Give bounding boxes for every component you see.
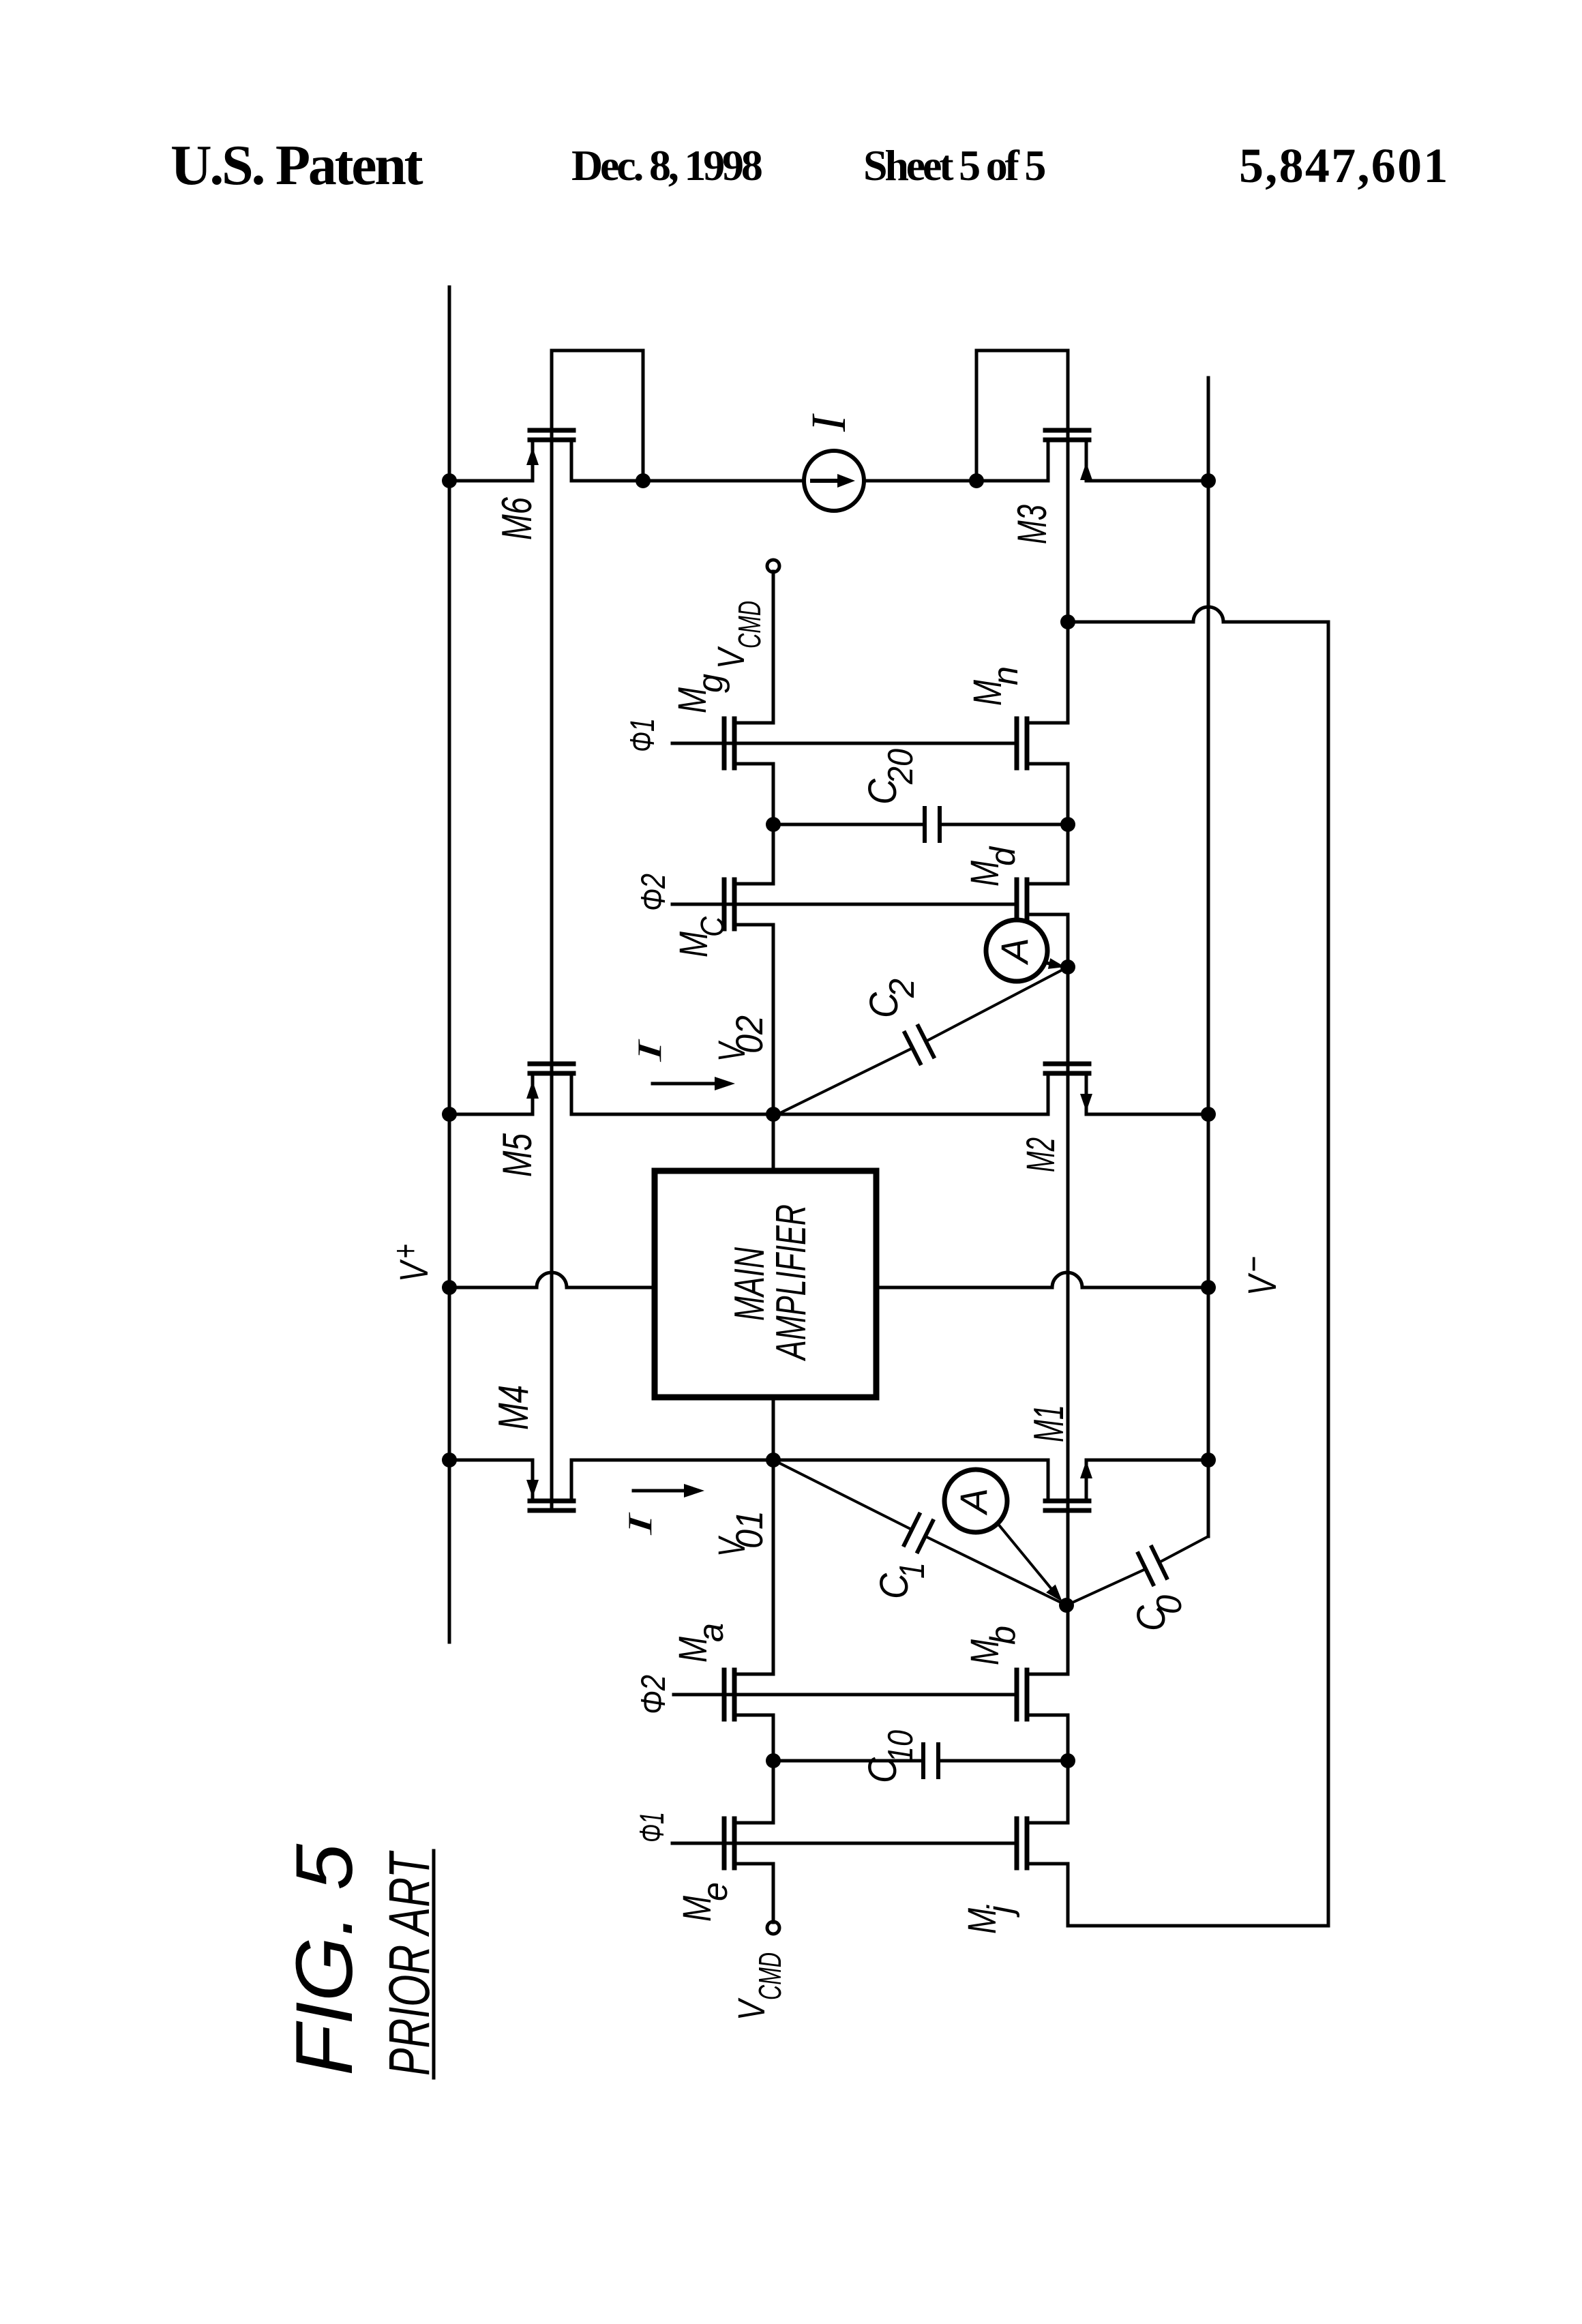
- svg-text:V: V: [1240, 1272, 1285, 1296]
- svg-text:CMD: CMD: [752, 1952, 788, 2000]
- svg-text:FIG. 5: FIG. 5: [280, 1844, 370, 2076]
- svg-text:d: d: [983, 846, 1023, 866]
- svg-text:a: a: [691, 1623, 731, 1642]
- svg-text:C: C: [695, 917, 731, 937]
- svg-text:+: +: [386, 1244, 426, 1259]
- svg-text:Φ2: Φ2: [634, 1675, 672, 1714]
- svg-text:01: 01: [728, 1510, 771, 1549]
- svg-text:M4: M4: [490, 1385, 537, 1430]
- svg-text:I: I: [801, 413, 856, 432]
- svg-text:1: 1: [893, 1562, 932, 1579]
- svg-text:02: 02: [728, 1015, 771, 1054]
- svg-text:0: 0: [1150, 1595, 1189, 1614]
- svg-text:M2: M2: [1019, 1137, 1063, 1172]
- svg-text:V: V: [730, 1997, 773, 2021]
- svg-text:A: A: [952, 1488, 995, 1515]
- svg-text:M3: M3: [1009, 505, 1055, 544]
- svg-text:b: b: [983, 1626, 1023, 1645]
- svg-text:2: 2: [882, 979, 922, 998]
- svg-text:I: I: [630, 1039, 668, 1063]
- svg-text:−: −: [1234, 1256, 1274, 1272]
- svg-text:A: A: [993, 938, 1036, 965]
- svg-text:V: V: [392, 1259, 436, 1282]
- svg-text:Φ1: Φ1: [633, 1812, 671, 1843]
- svg-text:M1: M1: [1026, 1405, 1073, 1442]
- svg-text:20: 20: [881, 749, 921, 785]
- svg-text:M6: M6: [494, 497, 541, 540]
- svg-text:e: e: [696, 1882, 735, 1901]
- svg-text:MAIN: MAIN: [726, 1247, 773, 1321]
- svg-text:I: I: [621, 1512, 659, 1536]
- svg-text:Φ2: Φ2: [634, 874, 672, 911]
- svg-text:g: g: [691, 674, 730, 693]
- svg-text:10: 10: [881, 1730, 921, 1763]
- svg-text:CMD: CMD: [732, 601, 767, 649]
- svg-text:n: n: [986, 666, 1026, 685]
- svg-text:M5: M5: [494, 1133, 540, 1177]
- svg-text:V: V: [709, 646, 752, 669]
- svg-text:Φ1: Φ1: [623, 718, 661, 752]
- svg-text:PRIOR ART: PRIOR ART: [377, 1850, 441, 2076]
- svg-text:AMPLIFIER: AMPLIFIER: [768, 1204, 815, 1362]
